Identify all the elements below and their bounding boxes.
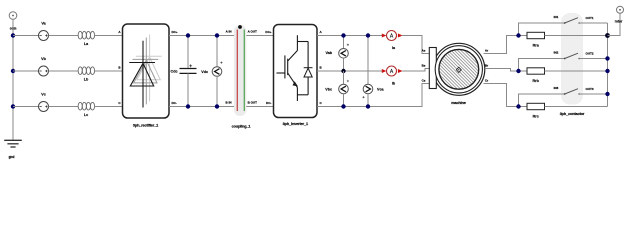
svg-text:DC+: DC+ bbox=[172, 30, 178, 34]
node star bus row2 bbox=[605, 69, 609, 73]
wire star to port bbox=[608, 13, 621, 35]
wire phase B ammeter to machine bbox=[402, 69, 429, 72]
wire rotor star bus bbox=[607, 23, 609, 107]
node Vbc bottom bbox=[341, 104, 345, 108]
machine (induction machine) bbox=[422, 43, 489, 105]
svg-text:OUT1: OUT1 bbox=[586, 16, 594, 20]
node star bus row1 bbox=[605, 33, 610, 38]
svg-text:Rra: Rra bbox=[533, 44, 540, 48]
coupling coupling_1 bbox=[226, 25, 258, 129]
node DC+ voltmeter bbox=[215, 33, 219, 37]
voltmeter Vca bbox=[362, 36, 384, 107]
wire inductor to rectifier pin C bbox=[95, 101, 123, 106]
svg-text:coupling_1: coupling_1 bbox=[232, 125, 251, 129]
inductor Lb bbox=[78, 67, 94, 82]
node bus-C bbox=[11, 104, 15, 108]
node rotor row 1 left bbox=[516, 33, 520, 37]
node DC- cap bbox=[186, 104, 190, 108]
voltmeter Vdc bbox=[201, 36, 222, 107]
svg-text:DC+: DC+ bbox=[265, 30, 271, 34]
wire source to inductor Lb bbox=[49, 70, 79, 72]
svg-text:Bs: Bs bbox=[422, 63, 426, 67]
node bus-A bbox=[11, 33, 15, 37]
wire rotor A to Rra row bbox=[484, 36, 519, 54]
ammeter Ia bbox=[382, 31, 403, 50]
voltage source Vc bbox=[39, 93, 49, 112]
node Vab top bbox=[341, 33, 345, 37]
wire phase A inverter to ammeter bbox=[317, 35, 383, 37]
resistor Rrc bbox=[519, 103, 608, 118]
svg-text:DC-: DC- bbox=[266, 101, 271, 105]
svg-text:3ph_contactor: 3ph_contactor bbox=[560, 112, 585, 116]
capacitor Cdc bbox=[171, 36, 197, 107]
voltage source Vb bbox=[39, 57, 49, 76]
svg-text:Cs: Cs bbox=[422, 78, 426, 82]
svg-text:B IN: B IN bbox=[226, 101, 232, 105]
svg-text:Rrc: Rrc bbox=[533, 115, 539, 119]
svg-text:A OUT: A OUT bbox=[248, 30, 257, 34]
wire inductor to rectifier pin B bbox=[95, 66, 123, 71]
wire DC+ rail bbox=[169, 30, 274, 36]
ammeter Ib bbox=[382, 66, 403, 85]
node DC+ cap bbox=[186, 33, 190, 37]
wire rotor B to Rrb row bbox=[485, 69, 519, 72]
svg-text:gnd: gnd bbox=[9, 155, 15, 159]
svg-text:OUT2: OUT2 bbox=[586, 52, 594, 56]
rectifier 3ph_rectifier_1 bbox=[123, 24, 170, 127]
wire rotor C to Rrc row bbox=[484, 84, 519, 107]
contactor 3ph_contactor body bbox=[560, 13, 585, 116]
ground gnd bbox=[4, 140, 22, 159]
node Vca bottom bbox=[366, 104, 370, 108]
node Vab bottom bbox=[341, 69, 345, 73]
node rotor row 2 left bbox=[516, 69, 520, 73]
svg-text:rotor: rotor bbox=[615, 20, 623, 24]
wire bus to source Vb bbox=[13, 70, 39, 72]
wire inductor to rectifier pin A bbox=[95, 30, 123, 35]
svg-text:Lc: Lc bbox=[84, 113, 88, 117]
wire phase A ammeter to machine bbox=[402, 36, 429, 54]
inductor Lc bbox=[78, 102, 94, 117]
svg-text:Rrb: Rrb bbox=[533, 79, 540, 83]
node port com (top-left) bbox=[9, 12, 17, 31]
resistor Rrb bbox=[519, 68, 608, 83]
node star bus sw3 bbox=[605, 92, 609, 96]
resistor Rra bbox=[519, 32, 608, 47]
svg-text:B OUT: B OUT bbox=[248, 101, 258, 105]
switch contactor pole 2 bbox=[519, 51, 608, 72]
wire phase B inverter to ammeter bbox=[317, 70, 383, 72]
svg-text:3ph_rectifier_1: 3ph_rectifier_1 bbox=[133, 123, 158, 127]
node DC- voltmeter bbox=[215, 104, 219, 108]
wire left neutral bus bbox=[12, 19, 14, 140]
svg-text:Vab: Vab bbox=[325, 51, 332, 55]
svg-text:Lb: Lb bbox=[84, 78, 89, 82]
svg-text:As: As bbox=[422, 48, 426, 52]
switch contactor pole 1 bbox=[519, 15, 608, 36]
svg-text:Vbc: Vbc bbox=[325, 88, 332, 92]
node Vca top bbox=[366, 33, 370, 37]
wire bus to source Va bbox=[13, 35, 39, 37]
voltage source Va bbox=[39, 22, 49, 41]
svg-text:Vc: Vc bbox=[41, 93, 46, 97]
node bus-B bbox=[11, 69, 15, 73]
wire phase C inverter to machine bbox=[317, 84, 430, 107]
wire bus to source Vc bbox=[13, 106, 39, 108]
svg-text:DC-: DC- bbox=[172, 101, 177, 105]
voltmeter Vbc bbox=[325, 71, 349, 107]
svg-text:Vdc: Vdc bbox=[201, 70, 208, 74]
inverter 3ph_inverter_1 bbox=[265, 25, 322, 126]
svg-text:machine: machine bbox=[451, 101, 466, 105]
svg-text:IN3: IN3 bbox=[554, 86, 559, 90]
inductor La bbox=[78, 31, 94, 46]
svg-text:Vca: Vca bbox=[377, 88, 385, 92]
wire source to inductor Lc bbox=[49, 106, 79, 108]
svg-text:IN2: IN2 bbox=[554, 51, 559, 55]
svg-text:IN1: IN1 bbox=[554, 15, 559, 19]
node star bus sw2 bbox=[605, 56, 609, 60]
node rotor row 3 left bbox=[516, 104, 520, 108]
svg-text:Cdc: Cdc bbox=[171, 70, 178, 74]
svg-text:A IN: A IN bbox=[226, 30, 232, 34]
svg-text:OUT3: OUT3 bbox=[586, 87, 594, 91]
svg-text:Vb: Vb bbox=[41, 57, 46, 61]
voltmeter Vab bbox=[325, 36, 349, 72]
switch contactor pole 3 bbox=[519, 86, 608, 107]
wire DC- rail bbox=[169, 101, 274, 107]
node port rotor (top-right) bbox=[615, 6, 624, 23]
svg-text:3ph_inverter_1: 3ph_inverter_1 bbox=[283, 122, 308, 126]
wire source to inductor La bbox=[49, 35, 79, 37]
